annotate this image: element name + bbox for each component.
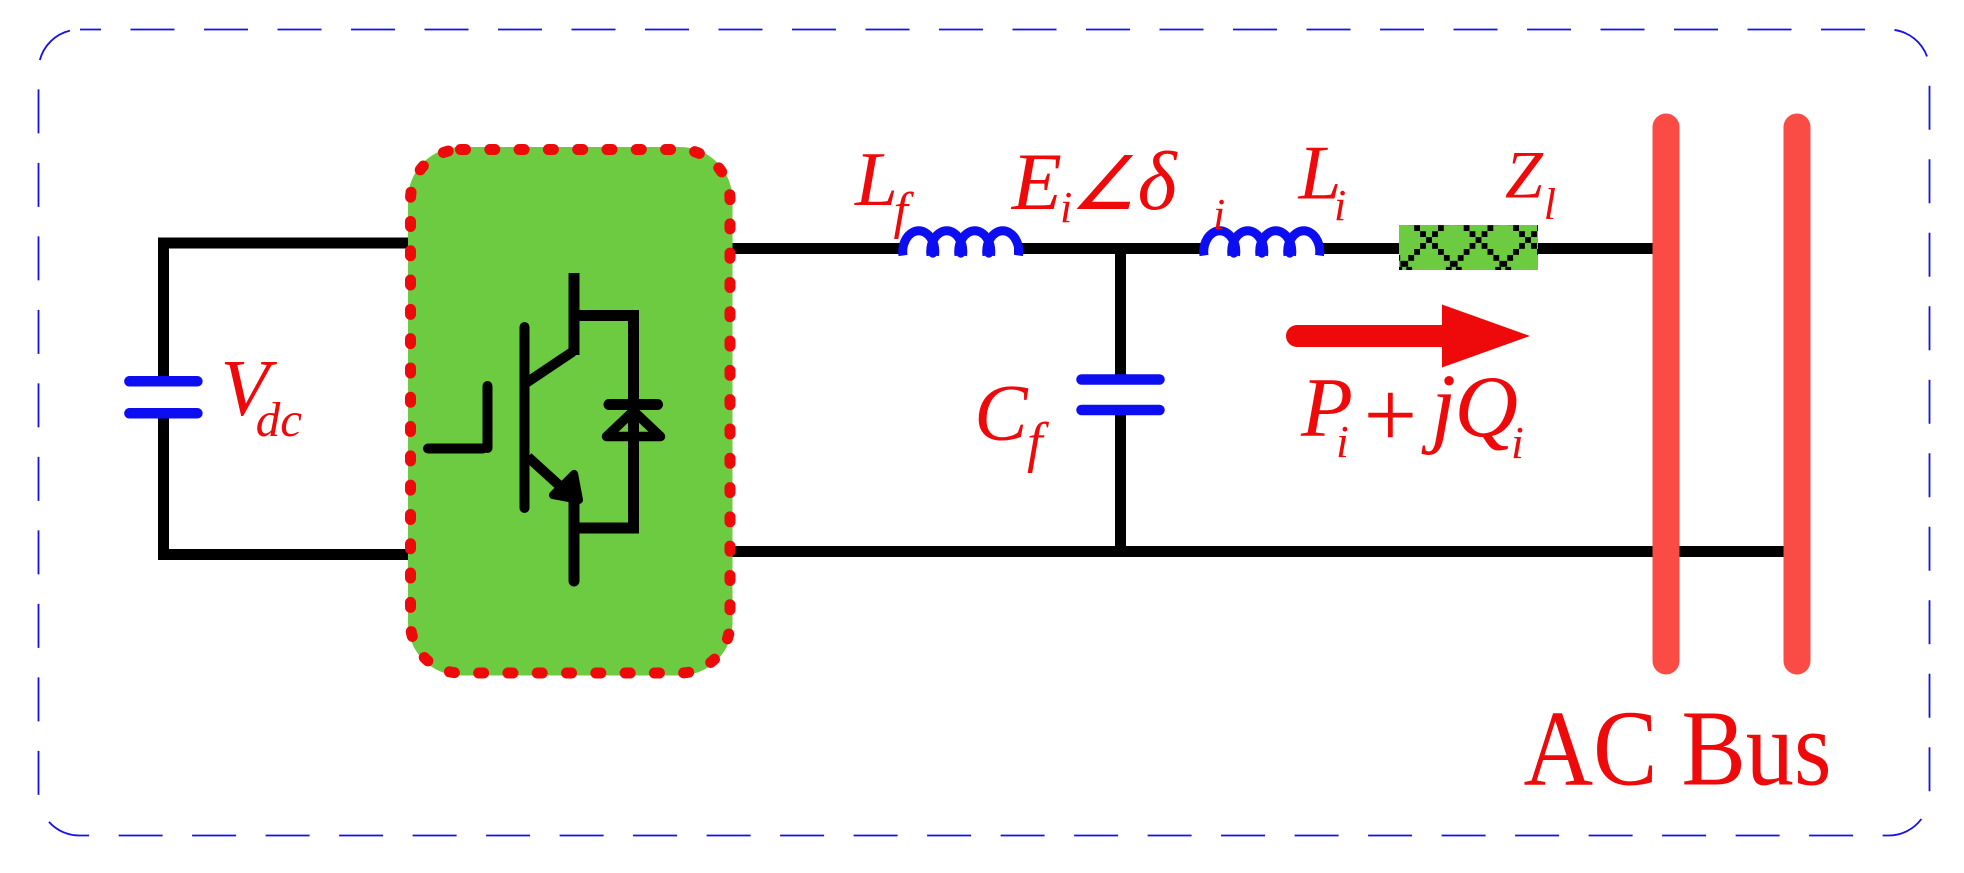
svg-text:+: + <box>1358 362 1422 468</box>
svg-text:L: L <box>854 136 898 222</box>
svg-text:AC Bus: AC Bus <box>1524 690 1832 809</box>
svg-text:i: i <box>1213 190 1225 239</box>
svg-text:i: i <box>1336 416 1349 467</box>
svg-text:E: E <box>1011 136 1062 227</box>
svg-text:dc: dc <box>256 392 302 447</box>
svg-text:i: i <box>1511 417 1524 468</box>
svg-text:δ: δ <box>1138 135 1179 228</box>
svg-text:Q: Q <box>1455 359 1519 456</box>
svg-text:∠: ∠ <box>1070 144 1136 226</box>
svg-text:Z: Z <box>1505 137 1544 213</box>
svg-text:C: C <box>974 370 1029 458</box>
svg-text:l: l <box>1544 180 1556 229</box>
svg-text:i: i <box>1334 181 1346 230</box>
